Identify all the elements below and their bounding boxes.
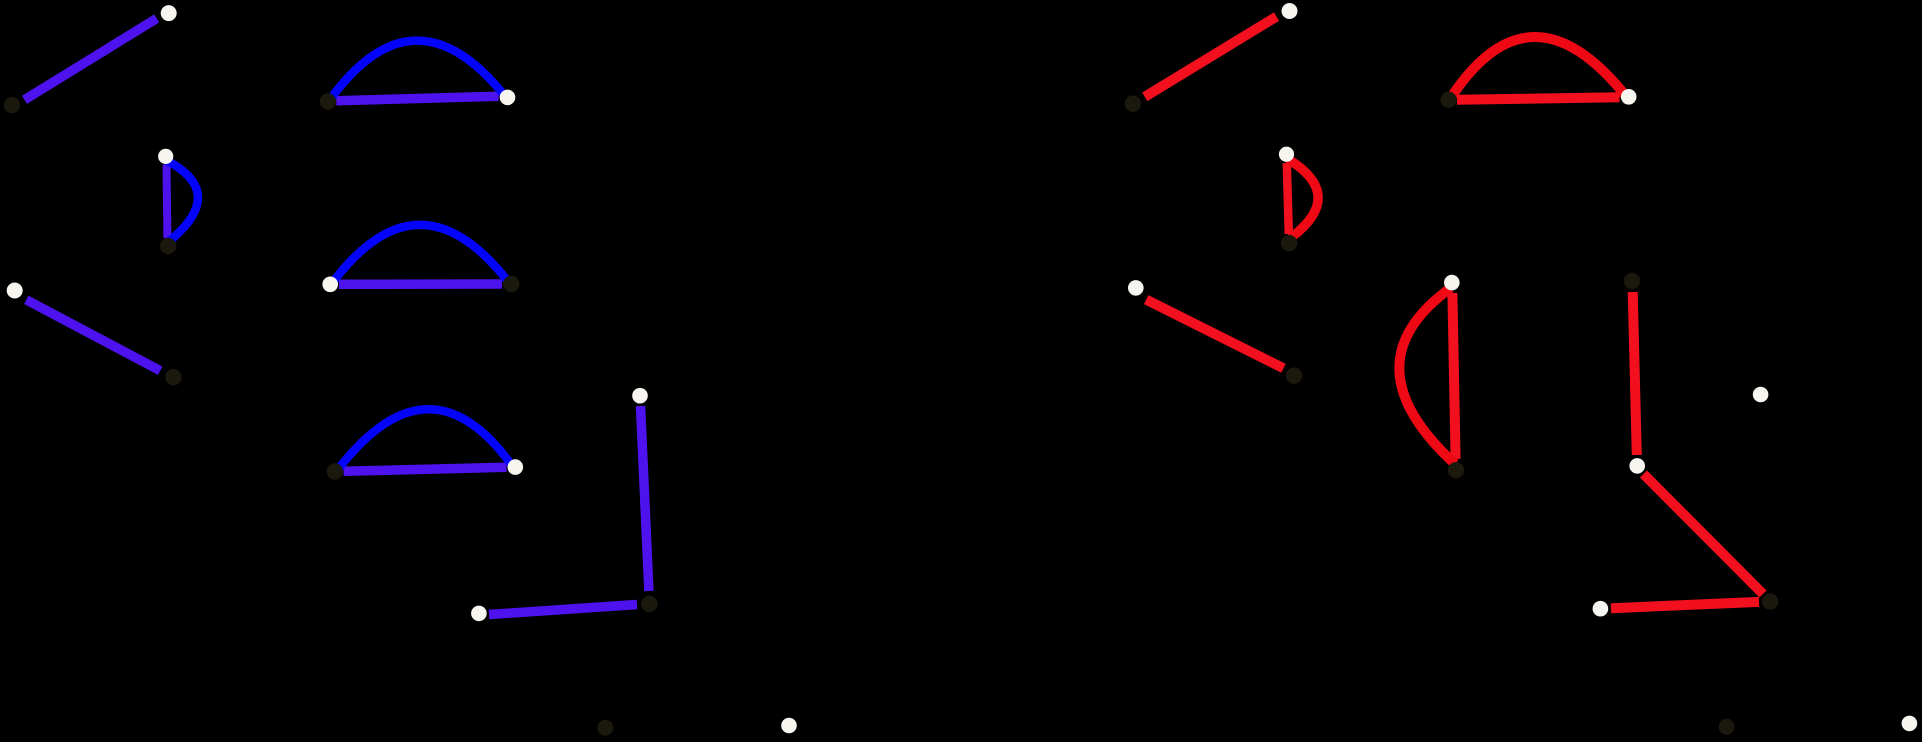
node N17 white bbox=[781, 718, 797, 734]
arc blue A3 bbox=[338, 409, 512, 469]
wire red A4 chord bbox=[1457, 97, 1620, 100]
node N7 dark bbox=[320, 93, 336, 109]
wire blue D1 chord bbox=[163, 165, 172, 239]
wire blue A3 chord bbox=[344, 467, 507, 471]
arc blue A1 bbox=[330, 41, 504, 100]
node M16 dark bbox=[1719, 719, 1735, 735]
node M13 dark bbox=[1762, 593, 1778, 609]
node M14 white bbox=[1593, 601, 1609, 617]
wire red segment R3 bbox=[1633, 292, 1637, 455]
wire blue A1 chord bbox=[336, 96, 498, 101]
wire red segment R5 bbox=[1611, 602, 1759, 608]
node N2 white bbox=[161, 5, 177, 21]
node N15 white bbox=[471, 606, 487, 622]
node N1 dark bbox=[4, 97, 20, 113]
node M5 white bbox=[1128, 280, 1144, 296]
node N10 dark bbox=[503, 276, 519, 292]
node N13 white bbox=[632, 388, 648, 404]
wire red D2 chord bbox=[1287, 163, 1289, 234]
node M9 white bbox=[1444, 275, 1460, 291]
arc blue D1 bbox=[167, 161, 198, 242]
node M10 dark bbox=[1448, 462, 1464, 478]
node M8 white bbox=[1621, 89, 1637, 105]
node N12 white bbox=[508, 459, 524, 475]
node M17 white bbox=[1902, 716, 1918, 732]
node N5 white bbox=[7, 283, 23, 299]
wire red D3 chord bbox=[1452, 293, 1455, 459]
node M15 white bbox=[1753, 387, 1769, 403]
wire blue segment S1 bbox=[25, 18, 157, 99]
arc blue A2 bbox=[333, 225, 508, 282]
node N8 white bbox=[500, 90, 516, 106]
node N4 dark bbox=[160, 238, 176, 254]
node M1 dark bbox=[1125, 96, 1141, 112]
node N11 dark bbox=[327, 463, 343, 479]
wire blue L horizontal bbox=[489, 605, 637, 615]
node M6 dark bbox=[1286, 368, 1302, 384]
node N16 dark bbox=[597, 720, 613, 736]
wire red segment R1 bbox=[1145, 17, 1277, 97]
arc red A4 bbox=[1451, 37, 1625, 97]
arc red D3 bbox=[1399, 288, 1455, 464]
node M7 dark bbox=[1440, 92, 1456, 108]
node N9 white bbox=[322, 277, 338, 293]
wire blue segment S2 bbox=[26, 300, 160, 371]
node M12 white bbox=[1629, 458, 1645, 474]
wire blue A2 chord bbox=[339, 279, 502, 289]
node M4 dark bbox=[1281, 235, 1297, 251]
node M11 dark bbox=[1624, 273, 1640, 289]
node M3 white bbox=[1279, 147, 1294, 162]
wire red segment R4 bbox=[1644, 474, 1764, 594]
wire red segment R2 bbox=[1146, 300, 1283, 369]
node N3 white bbox=[158, 149, 173, 164]
node N6 dark bbox=[165, 369, 181, 385]
arc red D2 bbox=[1288, 159, 1318, 238]
wire blue L vertical bbox=[641, 406, 649, 591]
node M2 white bbox=[1282, 3, 1298, 19]
node N14 dark bbox=[641, 596, 657, 612]
